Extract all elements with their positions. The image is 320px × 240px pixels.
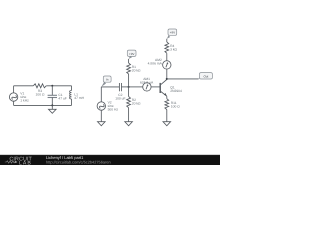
wire bottom rail — [14, 104, 72, 106]
svg-text:1 kHz: 1 kHz — [20, 99, 29, 103]
CircuitLab logo — [5, 156, 33, 166]
wire AM2 to R4 — [166, 53, 168, 61]
resistor R3 — [33, 84, 46, 88]
wire R4 top — [166, 39, 168, 42]
node label In — [101, 76, 111, 87]
node dot base junction — [128, 86, 130, 88]
ammeter AM1 — [143, 83, 151, 91]
wire top rail mid — [46, 85, 71, 87]
voltage source V1 — [9, 93, 17, 101]
svg-text:Out: Out — [203, 74, 208, 78]
svg-text:4.886 mA: 4.886 mA — [148, 62, 163, 66]
AM1 value label — [140, 77, 154, 85]
wire collector to out — [167, 78, 199, 80]
svg-text:47 mH: 47 mH — [74, 96, 84, 100]
wire to C2 — [101, 86, 119, 88]
ground V2 — [98, 122, 106, 126]
svg-text:http://circuitlab.com/c/5c2b42: http://circuitlab.com/c/5c2b42756aren — [46, 159, 111, 164]
V1 value label — [20, 92, 29, 103]
C1 value label — [58, 93, 66, 101]
wire emitter to R11 — [166, 96, 168, 99]
node dot collector — [166, 78, 168, 80]
wire collector up — [166, 69, 168, 79]
power label +9V (right) — [167, 29, 177, 39]
wire V1 top — [13, 86, 15, 93]
ammeter AM2 — [163, 61, 171, 69]
svg-text:20 kΩ: 20 kΩ — [132, 102, 141, 106]
R11 value label — [171, 101, 180, 109]
Q1 value label — [170, 86, 182, 94]
wire junction to R2 — [128, 87, 130, 97]
R1 value label — [132, 65, 141, 73]
ground R2 — [125, 122, 133, 126]
watermark bar — [0, 155, 220, 165]
wire C1 top lead — [51, 86, 53, 96]
voltage source V2 — [97, 102, 105, 110]
ground left circuit — [49, 105, 57, 113]
svg-text:2N3904: 2N3904 — [170, 89, 182, 93]
R2 value label — [132, 98, 141, 106]
svg-text:LAB: LAB — [19, 160, 32, 165]
AM2 value label — [148, 58, 163, 66]
capacitor C1 — [48, 95, 57, 97]
svg-text:100 Ω: 100 Ω — [171, 104, 180, 108]
R4 value label — [170, 44, 177, 52]
L1 value label — [74, 92, 84, 100]
svg-text:20 kΩ: 20 kΩ — [132, 68, 141, 72]
ground R11 — [163, 122, 171, 126]
resistor R4 — [165, 42, 169, 53]
svg-text:3 kΩ: 3 kΩ — [170, 47, 177, 51]
wire top rail left — [14, 85, 34, 87]
svg-text:500 Hz: 500 Hz — [108, 108, 119, 112]
svg-text:100 Ω: 100 Ω — [36, 93, 45, 97]
inductor L1 — [70, 86, 72, 106]
svg-text:100 uF: 100 uF — [115, 97, 125, 101]
node dot top of C1 — [51, 85, 53, 87]
svg-text:In: In — [106, 78, 109, 82]
wire +9V to R1 — [128, 59, 130, 63]
wire R2 to ground — [128, 108, 130, 122]
wire R11 to ground — [166, 110, 168, 122]
node label Out — [199, 73, 213, 79]
wire C1 bottom lead — [51, 98, 53, 106]
svg-text:624.8 µA: 624.8 µA — [140, 81, 154, 85]
wire V2 top — [100, 87, 102, 102]
resistor R1 — [127, 63, 131, 74]
transistor Q1 — [160, 80, 167, 97]
V2 value label — [108, 101, 119, 112]
wire V2 bottom — [100, 110, 102, 122]
svg-text:47 uF: 47 uF — [58, 97, 66, 101]
power label +9V (left) — [127, 50, 136, 59]
node dot bottom of C1 — [51, 104, 53, 106]
R3 value label — [36, 89, 45, 97]
wire R1 to junction — [128, 74, 130, 87]
capacitor C2 — [119, 83, 121, 91]
resistor R2 — [127, 97, 131, 108]
resistor R11 — [165, 99, 169, 110]
svg-text:+9V: +9V — [170, 31, 175, 35]
wire C2 to junction — [122, 86, 129, 88]
svg-text:+9V: +9V — [129, 52, 134, 56]
wire AM1 to base — [151, 86, 160, 88]
wire junction to AM1 — [129, 86, 143, 88]
wire V1 bottom — [13, 101, 15, 105]
C2 value label — [115, 93, 125, 100]
